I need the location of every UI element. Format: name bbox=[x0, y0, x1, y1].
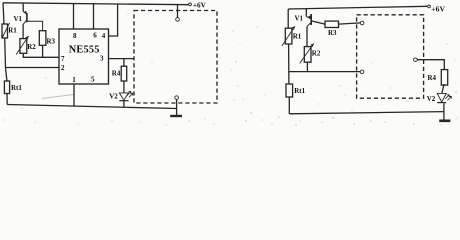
svg-text:V1: V1 bbox=[295, 14, 304, 22]
wire left rail bottom (right circuit) bbox=[288, 97, 290, 114]
resistor R4 (right circuit) bbox=[441, 70, 447, 86]
node terminal circle right (right box) bbox=[414, 58, 418, 62]
wire left rail middle segment bbox=[5, 38, 7, 81]
svg-text:R4: R4 bbox=[428, 74, 437, 82]
wire top rail (+6V rail, right circuit) bbox=[288, 6, 427, 9]
svg-text:NE555: NE555 bbox=[69, 45, 100, 56]
scan artifact smear (decorative) bbox=[42, 95, 74, 99]
svg-text:4: 4 bbox=[102, 32, 106, 40]
svg-text:7: 7 bbox=[61, 55, 65, 63]
resistor R3 (right circuit, horizontal) bbox=[325, 21, 339, 27]
svg-text:V2: V2 bbox=[427, 95, 436, 103]
wire V2 to bottom rail bbox=[123, 101, 125, 108]
resistor R1 (variable, left circuit) bbox=[1, 23, 9, 39]
svg-text:+6V: +6V bbox=[431, 5, 445, 14]
wire left rail top segment bbox=[3, 3, 4, 24]
wire V2 to ground bbox=[443, 103, 445, 120]
svg-text:R2: R2 bbox=[312, 49, 321, 57]
dashed socket box (left circuit) bbox=[134, 11, 217, 104]
wire terminal to R4 bbox=[417, 60, 444, 70]
wire top rail (+6V rail, left circuit) bbox=[3, 3, 188, 5]
svg-text:R3: R3 bbox=[47, 38, 56, 46]
wire bottom rail (left circuit) bbox=[7, 105, 176, 109]
wire pin2 wire to left rail bbox=[6, 67, 60, 69]
wire pin 6 to rail bbox=[93, 4, 95, 29]
node terminal circle middle (right box) bbox=[360, 70, 364, 74]
wire R2 bottom to pin 7 bbox=[23, 53, 59, 57]
wire R4 to V2 bbox=[123, 81, 125, 93]
resistor R3 (left circuit) bbox=[39, 31, 46, 46]
wire pin 1 to bottom rail bbox=[73, 84, 75, 106]
node top terminal circle (left box) bbox=[176, 18, 180, 22]
svg-text:Rt1: Rt1 bbox=[294, 87, 305, 95]
svg-text:R2: R2 bbox=[27, 43, 36, 51]
wire left rail top (right circuit) bbox=[287, 9, 289, 28]
wire pin 3 to R4 and dashed box bbox=[109, 58, 135, 60]
svg-text:Rt1: Rt1 bbox=[11, 84, 22, 92]
LED V2 (left circuit) bbox=[119, 91, 133, 100]
transistor V1 (right, PNP) bbox=[306, 9, 325, 47]
resistor R4 (left circuit) bbox=[121, 66, 127, 81]
node +6V terminal circle (left) bbox=[189, 3, 192, 6]
svg-text:R3: R3 bbox=[328, 29, 337, 37]
resistor R2 (variable, right circuit) bbox=[300, 44, 314, 64]
resistor Rt1 bbox=[4, 81, 9, 94]
wire node wire to terminal (right circuit) bbox=[289, 71, 361, 73]
node terminal circle upper (right box) bbox=[360, 21, 364, 25]
resistor Rt1 (right circuit) bbox=[286, 84, 293, 97]
svg-text:V2: V2 bbox=[109, 93, 118, 101]
wire left rail bottom segment bbox=[6, 94, 8, 105]
svg-text:8: 8 bbox=[73, 32, 77, 40]
resistor R2 (variable, left circuit) bbox=[16, 36, 29, 55]
ground (left circuit) bbox=[170, 115, 182, 117]
wire bottom terminal to ground bbox=[176, 99, 178, 116]
ground (right circuit) bbox=[439, 120, 450, 123]
svg-text:+6V: +6V bbox=[193, 2, 207, 10]
svg-text:1: 1 bbox=[72, 76, 76, 84]
svg-text:2: 2 bbox=[61, 64, 65, 72]
dashed socket box (right circuit) bbox=[357, 15, 424, 98]
svg-text:3: 3 bbox=[100, 54, 104, 62]
wire pin 8 to rail bbox=[73, 4, 75, 30]
svg-text:V1: V1 bbox=[14, 15, 23, 23]
wire R3 to terminal bbox=[339, 23, 361, 24]
transistor V1 (left, PNP) bbox=[23, 3, 42, 39]
wire R4 to V2 bbox=[442, 84, 444, 93]
node bottom terminal circle (left box) bbox=[175, 96, 179, 100]
scan speckle noise (decorative) bbox=[21, 13, 457, 125]
wire R4 top lead bbox=[123, 59, 125, 67]
wire left rail middle (right circuit) bbox=[288, 44, 290, 84]
wire bottom rail (right circuit) bbox=[289, 112, 444, 114]
svg-text:5: 5 bbox=[91, 76, 95, 84]
wire R2 bottom to node wire bbox=[306, 62, 308, 71]
op-amp U1 NE555 IC box bbox=[59, 29, 109, 84]
wire R3 bottom to pin 7 wire bbox=[42, 45, 44, 57]
svg-text:R4: R4 bbox=[112, 70, 121, 78]
svg-text:R1: R1 bbox=[293, 32, 302, 40]
svg-text:R1: R1 bbox=[8, 26, 17, 34]
wire pin 4 to rail bbox=[109, 4, 118, 36]
node +6V terminal circle (right) bbox=[428, 5, 431, 8]
resistor R1 (variable, right circuit) bbox=[282, 26, 295, 46]
wire top terminal lead bbox=[177, 5, 179, 18]
svg-text:6: 6 bbox=[93, 32, 97, 40]
LED V2 (right circuit) bbox=[437, 93, 451, 102]
